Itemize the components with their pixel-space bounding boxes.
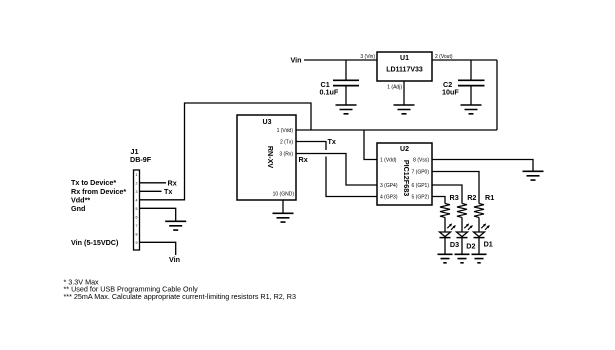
ground (under D1) — [472, 254, 487, 262]
svg-text:Tx: Tx — [164, 187, 172, 196]
pin 2 (Tx) label of U3 — [280, 140, 293, 146]
D2 label — [466, 241, 475, 250]
svg-text:10 (GND): 10 (GND) — [273, 192, 295, 198]
wire U2 GP0 to R1 — [432, 172, 479, 204]
svg-text:*** 25mA Max. Calculate approp: *** 25mA Max. Calculate appropriate curr… — [64, 292, 297, 301]
resistor R1 — [474, 204, 484, 218]
footnote 1 — [64, 277, 100, 286]
node Rx label (U3 side) — [299, 155, 308, 164]
ground (J1 pin5) — [165, 221, 186, 230]
svg-text:1 (Vdd): 1 (Vdd) — [277, 128, 294, 134]
wire U2 GP2 to R3 — [432, 197, 445, 204]
op-amp U1 regulator box — [377, 52, 432, 81]
svg-text:1 (Vdd): 1 (Vdd) — [380, 157, 397, 163]
node Tx label (U3 side) — [328, 137, 336, 146]
svg-text:Vin (5-15VDC): Vin (5-15VDC) — [71, 238, 119, 247]
pin 1 (Adj) label of U1 — [387, 85, 402, 91]
svg-text:Gnd: Gnd — [71, 204, 85, 213]
svg-text:PIC12F683: PIC12F683 — [402, 160, 411, 196]
wire D3 to ground — [444, 238, 446, 254]
svg-text:2 (Vout): 2 (Vout) — [435, 54, 453, 60]
svg-text:6 (GP1): 6 (GP1) — [411, 183, 429, 189]
wire 3.3V drop from Vout rail to Vdd rail — [496, 60, 498, 130]
wire U3 Tx to U2 GP3 (with crossover gap) — [296, 142, 377, 197]
wire U2 Vss to ground — [432, 160, 533, 172]
C1 value label — [320, 80, 339, 97]
wire R1 to D1 — [478, 217, 480, 232]
wire U2 GP1 to R2 — [432, 185, 462, 204]
wire riser from J1 pin4 to Vdd rail — [140, 103, 312, 200]
J1 left side signal labels — [71, 178, 126, 247]
pin 7 (GP0) label of U2 — [411, 169, 429, 175]
C2 value label — [442, 80, 459, 97]
U3 reference label — [263, 119, 272, 126]
LED D2 — [457, 223, 473, 237]
svg-text:1 (Adj): 1 (Adj) — [387, 85, 402, 91]
svg-text:R3: R3 — [450, 193, 459, 202]
U1 reference label — [400, 55, 409, 62]
pin 2 (Vout) label of U1 — [435, 54, 453, 60]
footnote 3 — [64, 292, 297, 301]
svg-text:Vin: Vin — [291, 56, 302, 65]
svg-text:R1: R1 — [485, 193, 494, 202]
wire J1 pin5 to ground — [140, 208, 176, 221]
svg-text:LD1117V33: LD1117V33 — [386, 67, 423, 74]
LED D1 — [474, 223, 490, 237]
ground (under C2) — [461, 105, 482, 114]
svg-text:2: 2 — [136, 181, 138, 185]
connector J1 DB-9F box — [134, 170, 140, 250]
wire R3 to D3 — [444, 217, 446, 232]
D1 label — [484, 240, 493, 249]
svg-text:U2: U2 — [400, 146, 409, 153]
ground (U2 Vss) — [523, 171, 544, 180]
op-amp U3 RN-XV module box — [237, 115, 296, 200]
wire U2 Vdd to rail — [364, 130, 377, 160]
U2 value PIC12F683 (rotated) — [402, 160, 411, 196]
ground (under C1) — [336, 105, 357, 114]
svg-text:8: 8 — [136, 232, 138, 236]
svg-text:Vin: Vin — [169, 255, 180, 264]
resistor R2 — [457, 204, 467, 218]
svg-text:4: 4 — [136, 198, 138, 202]
J1 pin numbers 1-9 — [136, 173, 138, 245]
ground (under D2) — [455, 254, 470, 262]
op-amp U2 PIC12F683 box — [377, 143, 432, 205]
svg-text:7 (GP0): 7 (GP0) — [411, 169, 429, 175]
wire D1 to ground — [478, 238, 480, 254]
pin 6 (GP1) label of U2 — [411, 183, 429, 189]
pin 3 (Rx) label of U3 — [279, 152, 293, 158]
wire C2 tap — [470, 60, 472, 80]
wire C2 bottom — [470, 86, 472, 105]
pin 3 (GP4) label of U2 — [380, 183, 398, 189]
svg-text:1: 1 — [136, 173, 138, 177]
ground (under U1 adj) — [394, 105, 415, 114]
svg-text:2 (Tx): 2 (Tx) — [280, 140, 293, 146]
capacitor C1 — [333, 80, 359, 85]
svg-text:U3: U3 — [263, 119, 272, 126]
wire C1 bottom — [345, 86, 347, 105]
wire R2 to D2 — [461, 217, 463, 232]
node Tx label (J1 side) — [164, 187, 172, 196]
R2 label — [467, 193, 476, 202]
wire Vin input rail to U1 pin3 — [304, 59, 377, 61]
svg-text:R2: R2 — [467, 193, 476, 202]
U3 value RN-XV (rotated) — [266, 146, 275, 169]
pin 3 (Vin) label of U1 — [360, 54, 375, 60]
node Vin label (J1 pin9) — [169, 255, 180, 264]
svg-text:9: 9 — [136, 241, 138, 245]
wire J1 pin3 stub — [140, 190, 162, 192]
svg-text:0.1uF: 0.1uF — [320, 88, 339, 97]
wire D2 to ground — [461, 238, 463, 254]
svg-text:Tx: Tx — [328, 137, 336, 146]
R1 label — [485, 193, 494, 202]
pin 1 (Vdd) label of U2 — [380, 157, 397, 163]
wire U1 Vout rail — [432, 59, 497, 61]
R3 label — [450, 193, 459, 202]
resistor R3 — [440, 204, 450, 218]
pin 5 (GP2) label of U2 — [411, 194, 429, 200]
svg-text:3 (GP4): 3 (GP4) — [380, 183, 398, 189]
svg-text:DB-9F: DB-9F — [130, 155, 152, 164]
wire J1 pin2 stub — [140, 182, 167, 184]
wire C1 tap — [345, 60, 347, 80]
svg-text:10uF: 10uF — [442, 88, 459, 97]
wire Vdd rail to U3 pin1 — [296, 129, 497, 131]
wire U3 Rx to U2 GP4 — [296, 154, 377, 186]
wire U3 ground stub — [282, 200, 284, 213]
svg-text:5 (GP2): 5 (GP2) — [411, 194, 429, 200]
LED D3 — [440, 223, 456, 237]
svg-text:3 (Rx): 3 (Rx) — [279, 152, 293, 158]
ground (under U3) — [273, 213, 294, 222]
svg-text:5: 5 — [136, 207, 138, 211]
D3 label — [450, 240, 459, 249]
svg-text:3: 3 — [136, 190, 138, 194]
U1 value LD1117V33 — [386, 67, 423, 74]
svg-text:U1: U1 — [400, 55, 409, 62]
svg-text:RN-XV: RN-XV — [266, 146, 275, 169]
pin 8 (Vss) label of U2 — [413, 157, 429, 163]
svg-text:Rx: Rx — [299, 155, 308, 164]
footnote 2 — [64, 285, 199, 294]
U2 reference label — [400, 146, 409, 153]
J1 reference label — [130, 147, 152, 164]
svg-text:6: 6 — [136, 215, 138, 219]
svg-text:7: 7 — [136, 224, 138, 228]
svg-text:3 (Vin): 3 (Vin) — [360, 54, 375, 60]
svg-text:4 (GP3): 4 (GP3) — [380, 194, 398, 200]
node Rx label (J1 side) — [168, 179, 177, 188]
pin 4 (GP3) label of U2 — [380, 194, 398, 200]
svg-text:8 (Vss): 8 (Vss) — [413, 157, 429, 163]
svg-text:D1: D1 — [484, 240, 493, 249]
wire U1 adj stub — [403, 81, 405, 105]
node Vin (input) label — [291, 56, 302, 65]
svg-text:D3: D3 — [450, 240, 459, 249]
pin 1 (Vdd) label of U3 — [277, 128, 294, 134]
wire J1 pin9 Vin stub — [140, 242, 176, 255]
svg-text:D2: D2 — [466, 241, 475, 250]
capacitor C2 — [458, 80, 485, 85]
ground (under D3) — [438, 254, 453, 262]
pin 10 (GND) label of U3 — [273, 192, 295, 198]
